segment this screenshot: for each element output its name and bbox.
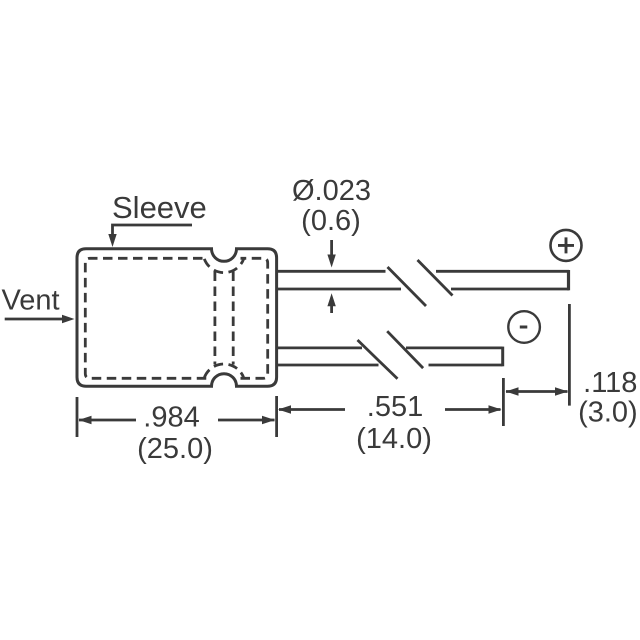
svg-text:.551: .551 — [367, 391, 423, 423]
negative polarity circle — [508, 311, 540, 343]
svg-text:(0.6): (0.6) — [301, 205, 361, 237]
lead diameter down arrow line — [330, 240, 333, 256]
sleeve leader line — [113, 225, 193, 235]
negative lead break slash 1 — [358, 340, 398, 379]
negative lead end cap — [501, 347, 504, 367]
svg-text:.984: .984 — [143, 402, 199, 434]
svg-text:(25.0): (25.0) — [137, 433, 213, 465]
positive lead break slash 2 — [418, 260, 453, 296]
capacitor body outline with vent notches — [77, 249, 277, 386]
lead diameter up arrow line — [330, 306, 333, 313]
extension line below negative lead end — [502, 378, 505, 426]
dimension .984 left arrowhead — [79, 416, 92, 424]
extension line below positive lead end — [568, 304, 571, 406]
extension line below body left edge — [76, 397, 79, 437]
dimension .551 left arrowhead — [278, 405, 291, 413]
positive lead bottom line — [278, 288, 570, 291]
svg-text:(3.0): (3.0) — [578, 397, 638, 429]
svg-text:(14.0): (14.0) — [356, 423, 432, 455]
svg-text:.118: .118 — [583, 367, 637, 399]
svg-text:Sleeve: Sleeve — [112, 190, 207, 225]
positive lead end cap — [567, 270, 570, 290]
extension line below body right edge — [275, 396, 278, 437]
lead diameter arrowhead down — [327, 255, 335, 268]
sleeve leader arrowhead — [108, 234, 116, 247]
svg-text:Ø.023: Ø.023 — [292, 175, 371, 207]
negative lead top line — [278, 346, 503, 349]
sleeve dashed arc around top notch — [204, 259, 243, 273]
dimension .984 right arrowhead — [262, 416, 275, 424]
lead length dimension line .551 — [279, 408, 501, 411]
negative lead bottom line — [278, 364, 503, 367]
vent leader arrowhead — [62, 315, 75, 323]
crimp dashed vertical line right — [232, 272, 235, 365]
negative lead break slash 2 — [387, 331, 423, 368]
plus sign — [558, 237, 574, 253]
svg-text:Vent: Vent — [2, 285, 60, 317]
body width dimension line .984 — [79, 419, 275, 422]
positive polarity circle — [551, 230, 582, 261]
crimp dashed vertical line left — [213, 272, 216, 365]
dimension .551 right arrowhead — [489, 405, 502, 413]
lead end offset dimension line .118 — [506, 390, 568, 393]
positive lead top line — [278, 270, 570, 273]
lead diameter arrowhead up — [327, 293, 335, 306]
vent leader line — [5, 318, 64, 321]
sleeve dashed arc around bottom notch — [204, 364, 243, 378]
dimension .118 right arrowhead — [555, 387, 568, 395]
minus sign — [520, 326, 528, 329]
sleeve dashed outline — [85, 258, 267, 378]
dimension .118 left arrowhead — [506, 387, 519, 395]
positive lead break slash 1 — [388, 267, 427, 306]
